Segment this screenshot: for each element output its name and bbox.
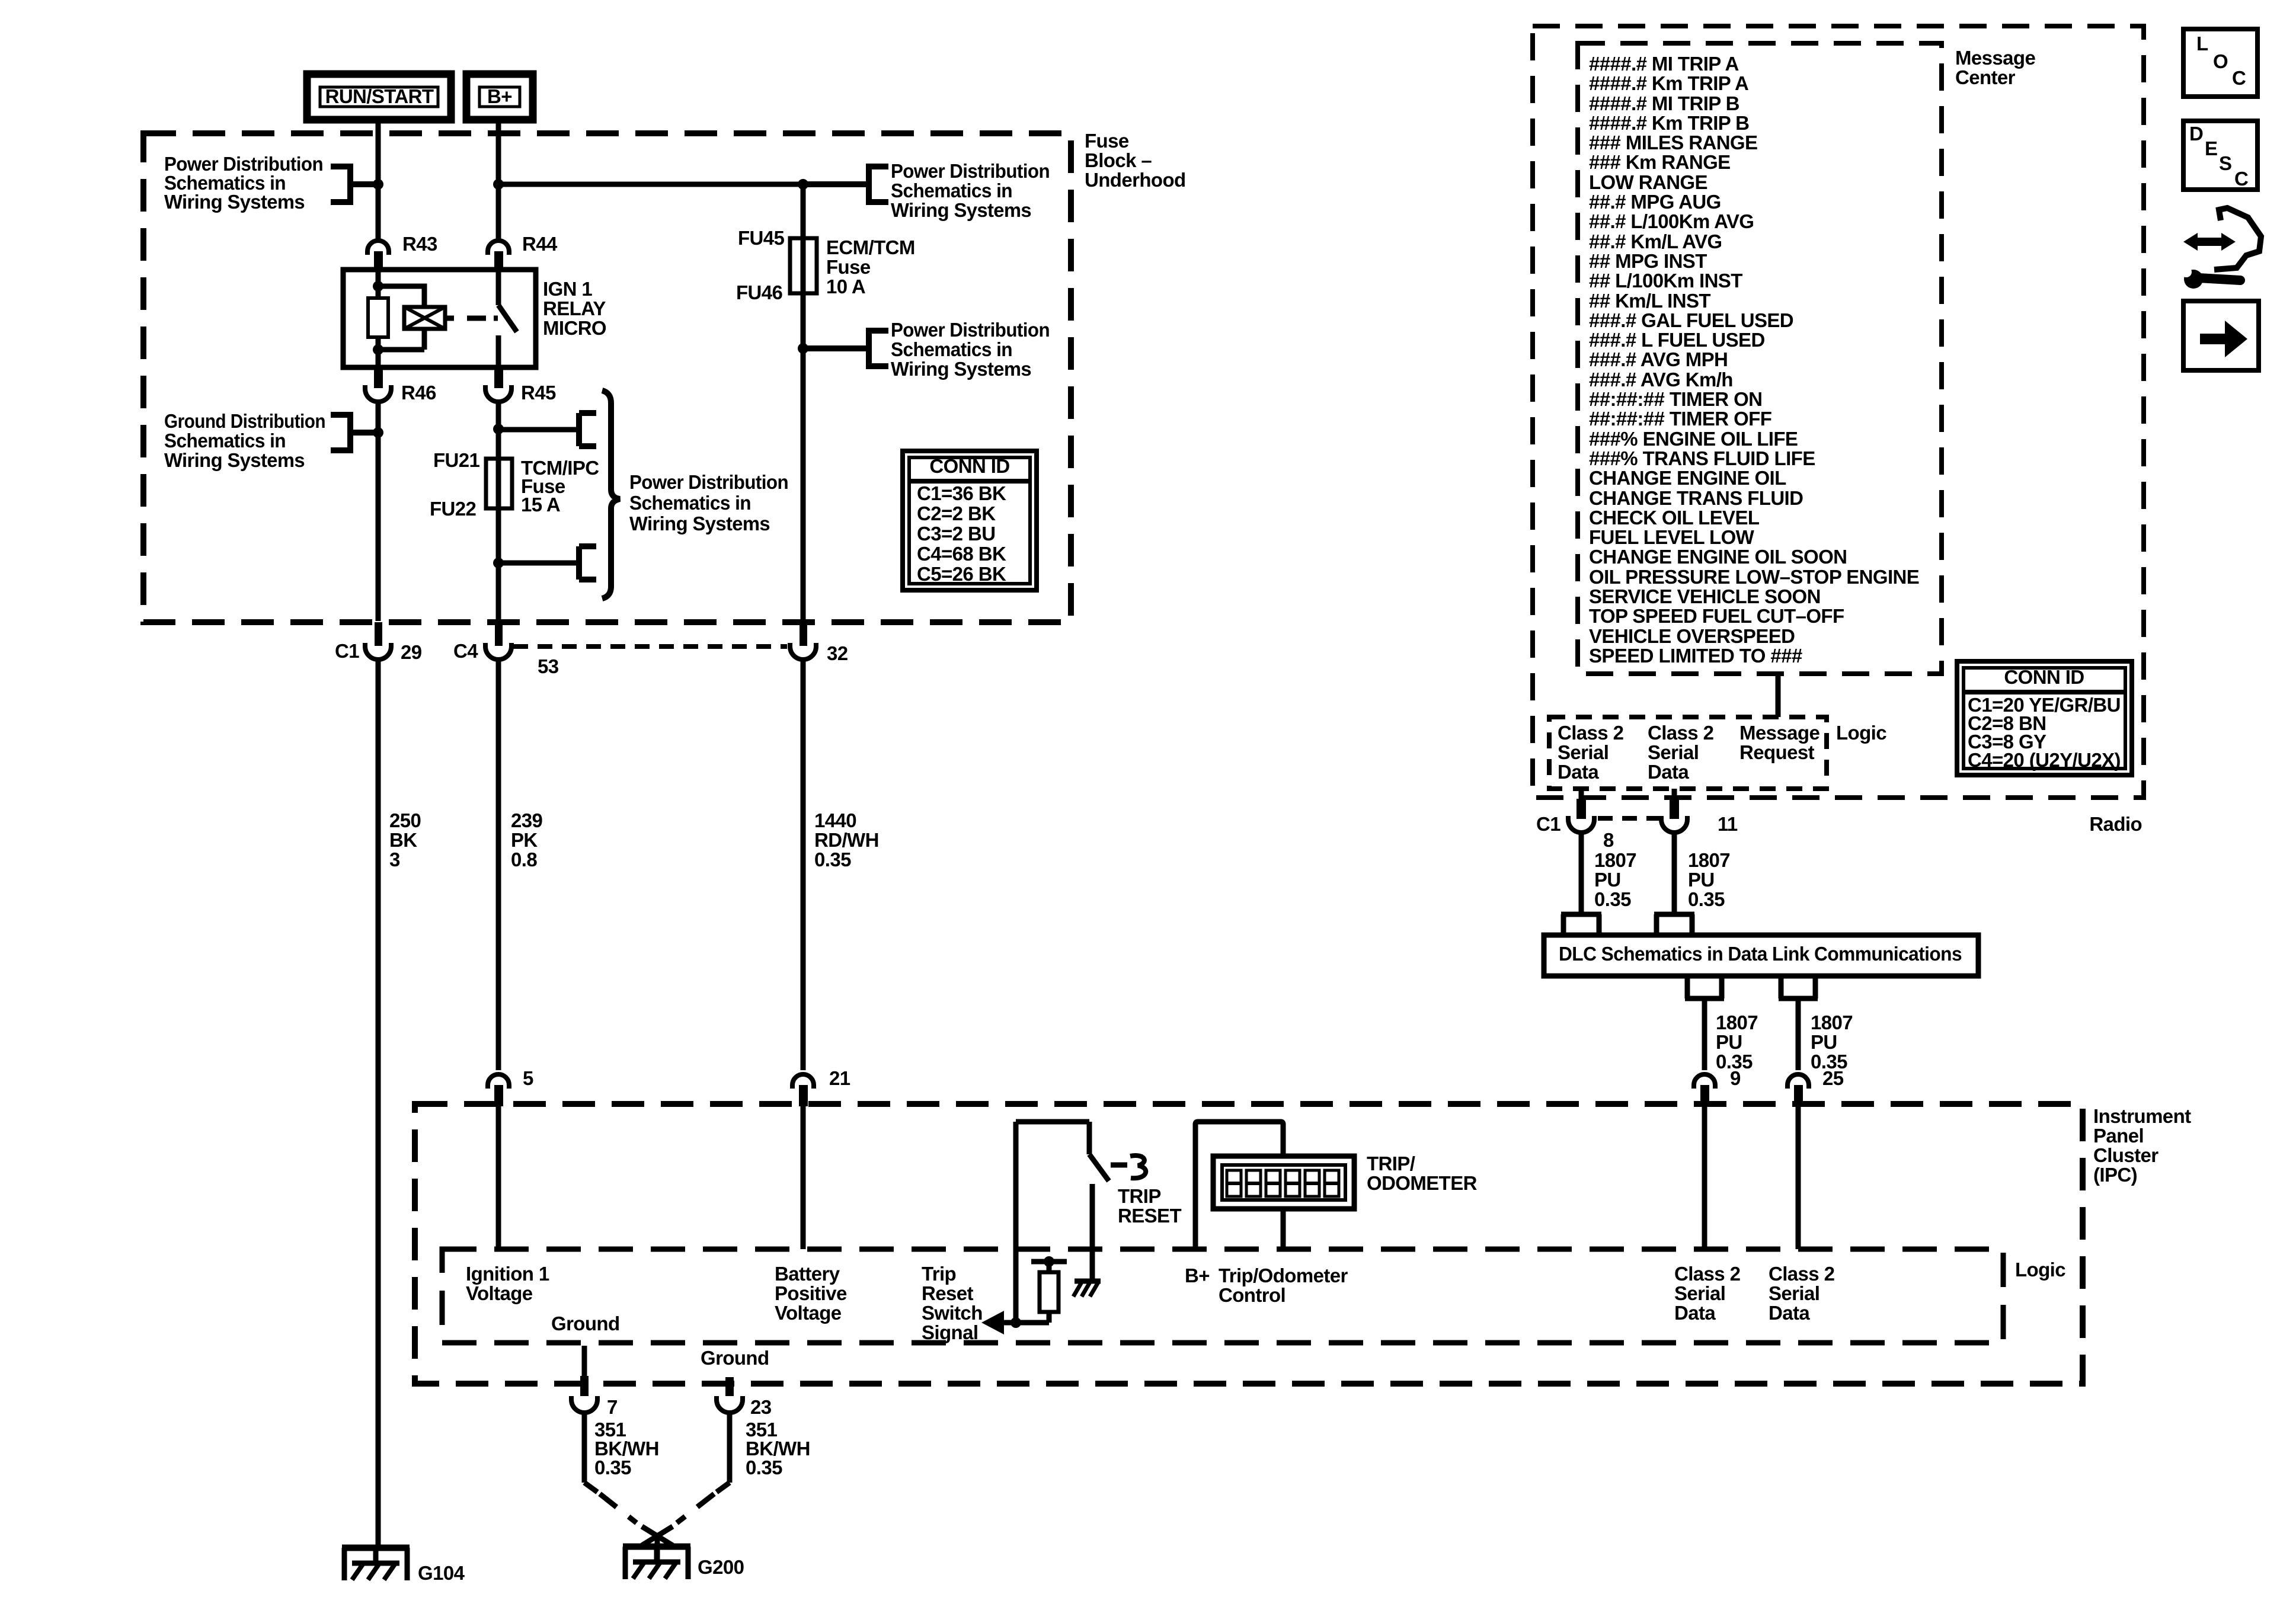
svg-text:CHANGE TRANS FLUID: CHANGE TRANS FLUID (1589, 487, 1803, 509)
svg-text:RD/WH: RD/WH (814, 829, 879, 851)
svg-text:Schematics in: Schematics in (164, 430, 286, 452)
svg-text:9: 9 (1730, 1067, 1741, 1089)
svg-text:ECM/TCM: ECM/TCM (826, 236, 915, 258)
svg-text:Signal: Signal (922, 1321, 978, 1343)
svg-text:PU: PU (1716, 1031, 1742, 1053)
svg-text:10 A: 10 A (826, 276, 865, 297)
svg-text:Data: Data (1648, 761, 1689, 783)
svg-text:R43: R43 (402, 233, 437, 255)
svg-text:B+: B+ (1185, 1265, 1210, 1286)
svg-text:Class 2: Class 2 (1558, 722, 1624, 744)
svg-text:C3=2 BU: C3=2 BU (917, 523, 995, 545)
svg-text:0.35: 0.35 (1688, 888, 1725, 910)
svg-text:Request: Request (1739, 741, 1815, 763)
svg-text:0.8: 0.8 (511, 849, 537, 870)
svg-text:MICRO: MICRO (543, 317, 606, 339)
svg-text:0.35: 0.35 (814, 849, 851, 870)
svg-text:Logic: Logic (2015, 1259, 2065, 1281)
svg-text:### MILES RANGE: ### MILES RANGE (1589, 132, 1757, 153)
svg-text:5: 5 (523, 1067, 533, 1089)
svg-text:IGN 1: IGN 1 (543, 278, 592, 300)
svg-text:Center: Center (1955, 66, 2016, 88)
svg-text:1440: 1440 (814, 809, 856, 831)
svg-text:1807: 1807 (1811, 1012, 1853, 1033)
svg-text:Data: Data (1558, 761, 1599, 783)
svg-text:TOP SPEED FUEL CUT–OFF: TOP SPEED FUEL CUT–OFF (1589, 605, 1844, 627)
svg-text:####.# Km TRIP B: ####.# Km TRIP B (1589, 112, 1749, 134)
svg-text:Data: Data (1769, 1302, 1810, 1324)
svg-text:####.# Km TRIP A: ####.# Km TRIP A (1589, 72, 1748, 94)
svg-text:Trip/Odometer: Trip/Odometer (1219, 1265, 1348, 1286)
svg-text:FU46: FU46 (736, 281, 783, 303)
svg-text:Ground: Ground (701, 1347, 769, 1369)
svg-text:####.# MI TRIP B: ####.# MI TRIP B (1589, 92, 1739, 114)
svg-text:Radio: Radio (2089, 813, 2142, 835)
svg-text:### Km RANGE: ### Km RANGE (1589, 151, 1731, 173)
svg-text:1807: 1807 (1716, 1012, 1758, 1033)
svg-text:Schematics in: Schematics in (891, 180, 1012, 201)
svg-text:C: C (2232, 67, 2246, 89)
svg-text:Serial: Serial (1648, 741, 1699, 763)
svg-text:Class 2: Class 2 (1769, 1263, 1835, 1285)
svg-text:## L/100Km INST: ## L/100Km INST (1589, 270, 1742, 292)
svg-text:32: 32 (827, 642, 848, 664)
svg-text:C4: C4 (453, 640, 478, 662)
svg-text:Ground: Ground (551, 1313, 620, 1334)
svg-text:25: 25 (1822, 1067, 1844, 1089)
svg-text:CHANGE ENGINE OIL SOON: CHANGE ENGINE OIL SOON (1589, 546, 1847, 568)
svg-text:E: E (2205, 137, 2217, 159)
svg-text:G200: G200 (698, 1556, 744, 1578)
svg-text:15 A: 15 A (521, 494, 560, 516)
svg-text:Reset: Reset (922, 1282, 973, 1304)
svg-text:G104: G104 (418, 1562, 465, 1584)
svg-text:Voltage: Voltage (775, 1302, 842, 1324)
svg-text:CONN ID: CONN ID (2004, 666, 2084, 688)
svg-text:R44: R44 (522, 233, 558, 255)
svg-text:Panel: Panel (2093, 1125, 2144, 1147)
svg-text:###.# GAL FUEL USED: ###.# GAL FUEL USED (1589, 309, 1793, 331)
svg-text:RESET: RESET (1118, 1205, 1181, 1227)
svg-text:Cluster: Cluster (2093, 1144, 2159, 1166)
svg-text:53: 53 (538, 655, 559, 677)
svg-text:R45: R45 (521, 382, 556, 404)
svg-text:Schematics in: Schematics in (891, 338, 1012, 360)
svg-text:Block –: Block – (1085, 149, 1152, 171)
svg-text:RELAY: RELAY (543, 297, 606, 319)
svg-text:CHECK OIL LEVEL: CHECK OIL LEVEL (1589, 507, 1760, 529)
svg-text:PU: PU (1594, 869, 1621, 891)
svg-text:D: D (2189, 123, 2203, 145)
svg-text:Positive: Positive (775, 1282, 847, 1304)
svg-text:11: 11 (1718, 813, 1738, 835)
svg-text:7: 7 (607, 1396, 618, 1418)
svg-text:Wiring Systems: Wiring Systems (164, 191, 305, 213)
svg-text:0.35: 0.35 (1594, 888, 1631, 910)
svg-text:Class 2: Class 2 (1648, 722, 1714, 744)
svg-text:3: 3 (389, 849, 400, 870)
svg-text:FU21: FU21 (433, 449, 480, 471)
svg-text:Fuse: Fuse (1085, 130, 1129, 152)
svg-text:250: 250 (389, 809, 421, 831)
svg-text:Battery: Battery (775, 1263, 840, 1285)
svg-text:Message: Message (1739, 722, 1819, 744)
svg-text:L: L (2196, 33, 2208, 55)
svg-text:Message: Message (1955, 47, 2035, 69)
svg-text:SERVICE VEHICLE SOON: SERVICE VEHICLE SOON (1589, 585, 1821, 607)
svg-text:Ground Distribution: Ground Distribution (164, 410, 325, 432)
svg-text:##:##:## TIMER OFF: ##:##:## TIMER OFF (1589, 408, 1771, 430)
svg-text:FUEL LEVEL LOW: FUEL LEVEL LOW (1589, 526, 1755, 548)
svg-text:##.# Km/L AVG: ##.# Km/L AVG (1589, 231, 1722, 252)
svg-text:##.# MPG AUG: ##.# MPG AUG (1589, 191, 1721, 213)
svg-text:Underhood: Underhood (1085, 169, 1186, 191)
svg-text:###.# L FUEL USED: ###.# L FUEL USED (1589, 329, 1765, 351)
svg-text:Data: Data (1674, 1302, 1716, 1324)
svg-text:1807: 1807 (1594, 849, 1636, 871)
svg-text:Ignition 1: Ignition 1 (466, 1263, 549, 1285)
svg-text:Power Distribution: Power Distribution (629, 471, 788, 493)
svg-text:TRIP/: TRIP/ (1367, 1153, 1415, 1174)
svg-text:R46: R46 (401, 382, 436, 404)
svg-text:PU: PU (1811, 1031, 1837, 1053)
svg-text:## MPG INST: ## MPG INST (1589, 250, 1707, 272)
svg-text:Serial: Serial (1558, 741, 1609, 763)
svg-text:B+: B+ (487, 85, 512, 107)
svg-text:C: C (2234, 168, 2248, 190)
svg-text:1807: 1807 (1688, 849, 1730, 871)
svg-text:CONN ID: CONN ID (929, 455, 1009, 477)
svg-text:TRIP: TRIP (1118, 1185, 1161, 1207)
svg-text:Control: Control (1219, 1284, 1285, 1306)
svg-text:FU45: FU45 (738, 227, 785, 249)
svg-text:0.35: 0.35 (594, 1457, 631, 1478)
svg-text:FU22: FU22 (430, 498, 477, 520)
svg-text:RUN/START: RUN/START (325, 85, 434, 107)
svg-text:##.# L/100Km AVG: ##.# L/100Km AVG (1589, 210, 1754, 232)
svg-text:0.35: 0.35 (746, 1457, 782, 1478)
svg-text:###.# AVG Km/h: ###.# AVG Km/h (1589, 369, 1733, 391)
svg-text:239: 239 (511, 809, 543, 831)
svg-text:VEHICLE OVERSPEED: VEHICLE OVERSPEED (1589, 625, 1795, 647)
svg-text:###.# AVG MPH: ###.# AVG MPH (1589, 348, 1728, 370)
svg-text:29: 29 (401, 641, 422, 663)
svg-text:##:##:## TIMER ON: ##:##:## TIMER ON (1589, 388, 1762, 410)
svg-text:C5=26 BK: C5=26 BK (917, 563, 1006, 585)
svg-text:ODOMETER: ODOMETER (1367, 1172, 1478, 1194)
svg-text:(IPC): (IPC) (2093, 1164, 2137, 1186)
svg-text:Fuse: Fuse (826, 256, 871, 278)
svg-text:DLC Schematics in Data Link Co: DLC Schematics in Data Link Communicatio… (1559, 943, 1962, 965)
svg-text:Voltage: Voltage (466, 1282, 533, 1304)
svg-text:23: 23 (750, 1396, 772, 1418)
svg-text:C1=36 BK: C1=36 BK (917, 482, 1006, 504)
svg-text:S: S (2219, 152, 2231, 174)
svg-text:LOW RANGE: LOW RANGE (1589, 171, 1707, 193)
svg-text:C4=20 (U2Y/U2X): C4=20 (U2Y/U2X) (1968, 749, 2121, 771)
svg-text:Wiring Systems: Wiring Systems (891, 358, 1031, 380)
svg-text:O: O (2213, 50, 2228, 72)
svg-text:C1: C1 (1536, 813, 1560, 835)
svg-text:21: 21 (829, 1067, 850, 1089)
svg-text:PK: PK (511, 829, 538, 851)
svg-text:8: 8 (1603, 829, 1614, 851)
svg-text:SPEED LIMITED TO ###: SPEED LIMITED TO ### (1589, 645, 1802, 667)
svg-text:Power Distribution: Power Distribution (891, 160, 1050, 182)
svg-text:C4=68 BK: C4=68 BK (917, 543, 1006, 565)
svg-text:Serial: Serial (1674, 1282, 1725, 1304)
svg-text:Power Distribution: Power Distribution (891, 319, 1050, 341)
svg-text:Wiring Systems: Wiring Systems (891, 199, 1031, 221)
svg-text:C2=2 BK: C2=2 BK (917, 502, 996, 524)
svg-text:Class 2: Class 2 (1674, 1263, 1741, 1285)
svg-text:Serial: Serial (1769, 1282, 1819, 1304)
svg-text:BK: BK (389, 829, 417, 851)
svg-text:###% ENGINE OIL LIFE: ###% ENGINE OIL LIFE (1589, 428, 1798, 450)
svg-text:Switch: Switch (922, 1302, 983, 1324)
svg-text:Trip: Trip (922, 1263, 956, 1285)
svg-text:OIL PRESSURE LOW–STOP ENGINE: OIL PRESSURE LOW–STOP ENGINE (1589, 566, 1919, 588)
svg-text:PU: PU (1688, 869, 1715, 891)
svg-text:Wiring Systems: Wiring Systems (629, 513, 770, 534)
svg-text:###% TRANS FLUID LIFE: ###% TRANS FLUID LIFE (1589, 447, 1815, 469)
svg-text:Wiring Systems: Wiring Systems (164, 449, 305, 471)
svg-text:Instrument: Instrument (2093, 1105, 2191, 1127)
svg-text:####.# MI TRIP A: ####.# MI TRIP A (1589, 53, 1739, 75)
svg-text:C1: C1 (335, 640, 359, 662)
svg-text:## Km/L INST: ## Km/L INST (1589, 290, 1710, 312)
svg-text:CHANGE ENGINE OIL: CHANGE ENGINE OIL (1589, 467, 1786, 489)
svg-text:Logic: Logic (1836, 722, 1886, 744)
svg-text:Schematics in: Schematics in (629, 492, 751, 514)
